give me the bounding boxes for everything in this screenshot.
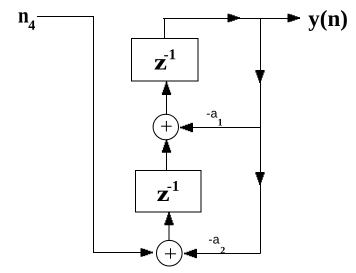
svg-text:4: 4 [28,19,35,34]
svg-text:n: n [18,3,29,28]
svg-text:1: 1 [218,117,223,128]
svg-text:y(n): y(n) [308,6,348,31]
svg-text:-1: -1 [167,179,180,195]
svg-text:-1: -1 [164,47,177,63]
svg-text:2: 2 [220,245,225,256]
svg-text:-a: -a [208,233,219,247]
svg-text:-a: -a [206,107,217,121]
